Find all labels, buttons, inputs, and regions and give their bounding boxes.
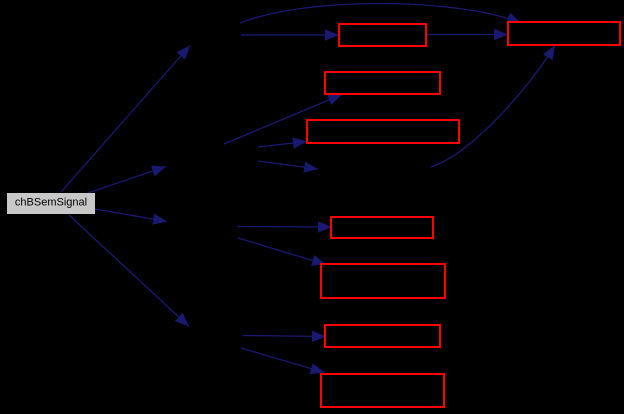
wire box A -> box B xyxy=(427,34,508,36)
box G xyxy=(325,325,440,347)
wire node1 -> box B (top curve) xyxy=(240,3,521,23)
wire node2 -> box D xyxy=(258,142,307,148)
wire chBSemSignal -> node3 xyxy=(95,209,167,222)
box B xyxy=(508,22,620,45)
wire node4 -> box G xyxy=(243,336,326,337)
wire node3 -> box E xyxy=(237,226,332,229)
wire node2 -> node5 xyxy=(258,161,318,169)
wire node4 -> box H xyxy=(241,348,325,373)
wire chBSemSignal -> node4 xyxy=(69,215,189,327)
wire node5 -> box B (right curve) xyxy=(431,46,555,168)
box E xyxy=(331,217,433,238)
wire chBSemSignal -> node1 xyxy=(61,46,190,193)
box A xyxy=(339,24,426,46)
wire chBSemSignal -> node2 xyxy=(88,167,166,194)
box D xyxy=(307,120,459,143)
box F xyxy=(321,264,445,298)
box C xyxy=(325,72,440,94)
wire node2 -> box C xyxy=(224,95,342,145)
wire node1 -> box A xyxy=(241,34,339,36)
svg-text:chBSemSignal: chBSemSignal xyxy=(15,197,87,209)
box H xyxy=(321,374,444,407)
wire node3 -> box F xyxy=(238,238,326,265)
node chBSemSignal xyxy=(7,193,95,214)
